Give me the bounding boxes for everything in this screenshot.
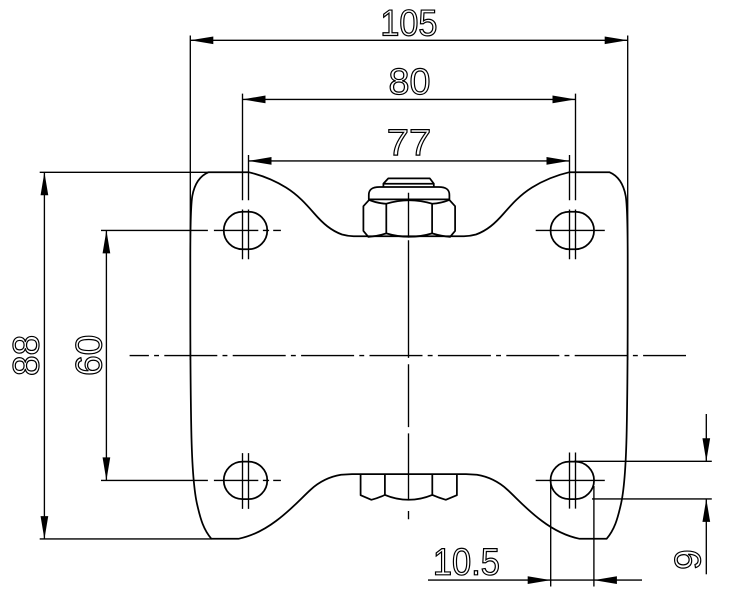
- text 80: [390, 68, 429, 94]
- text 88 (rotated): [13, 336, 39, 374]
- main vertical centerline: [408, 193, 410, 520]
- arrow 80 left: [243, 96, 266, 104]
- dim 10.5 line: [428, 579, 642, 581]
- arrow 77 right: [547, 157, 570, 165]
- top nut hex: [363, 200, 455, 237]
- dim 88 line: [43, 172, 45, 539]
- dim 105 ext right: [627, 36, 629, 361]
- text 60 (rotated): [76, 336, 102, 374]
- dim 10.5 ext left: [550, 483, 552, 587]
- dim 9 ext top: [574, 460, 712, 462]
- dim 105 ext left: [189, 36, 191, 361]
- arrow 10.5 right (outside, pointing left): [594, 576, 617, 584]
- dim 9 line upper: [705, 414, 707, 461]
- dim 80 ext right: [575, 94, 577, 260]
- bottom nut hex: [361, 474, 457, 500]
- text 77: [389, 130, 429, 155]
- arrow 88 bottom: [41, 516, 49, 539]
- hole vertical marks bottom-left: [243, 453, 249, 509]
- hole top-right (slot): [551, 212, 595, 250]
- main horizontal centerline: [130, 355, 686, 357]
- arrow 88 top: [41, 172, 49, 195]
- text 105: [383, 10, 436, 36]
- center lines (dash-dot): [101, 193, 686, 520]
- dim 9 line lower: [705, 499, 707, 574]
- hole vertical marks bottom-right: [570, 453, 576, 509]
- arrow 9 bottom (outside, pointing up): [702, 499, 710, 522]
- arrow 80 right: [553, 96, 576, 104]
- text 10.5: [436, 548, 499, 575]
- dim 88 ext bottom: [40, 538, 212, 540]
- arrow 105 right: [605, 36, 628, 44]
- arrow 10.5 left (outside, pointing right): [528, 576, 551, 584]
- dim 105 line: [190, 39, 627, 41]
- hole bottom-right (slot): [551, 462, 595, 500]
- dim 77 ext left: [248, 155, 250, 259]
- hole centerline bottom-left: [101, 479, 281, 481]
- hole centerline top-left: [101, 229, 281, 231]
- text 9 (rotated): [675, 551, 701, 568]
- dim 10.5 ext right: [593, 486, 595, 587]
- plate outline: [190, 172, 627, 539]
- dim 77 line: [249, 160, 570, 162]
- hole top-left (slot): [224, 212, 268, 250]
- arrow 9 top (outside, pointing down): [702, 438, 710, 461]
- arrow 60 bottom: [103, 457, 111, 480]
- dim 9 ext bottom: [592, 498, 712, 500]
- top nut cap: [383, 178, 433, 187]
- dim 77 ext right: [569, 155, 571, 259]
- hole bottom-left (slot): [224, 462, 268, 500]
- dim 80 line: [243, 98, 576, 100]
- arrow 77 left: [249, 157, 272, 165]
- dim 60 line: [105, 230, 107, 480]
- hole centerline bottom-right: [536, 479, 605, 481]
- dim 88 ext top: [40, 171, 209, 173]
- dim 80 ext left: [242, 94, 244, 260]
- top nut collar: [369, 187, 450, 199]
- arrow 105 left: [190, 36, 213, 44]
- hole centerline top-right: [536, 229, 605, 231]
- arrow 60 top: [103, 230, 111, 253]
